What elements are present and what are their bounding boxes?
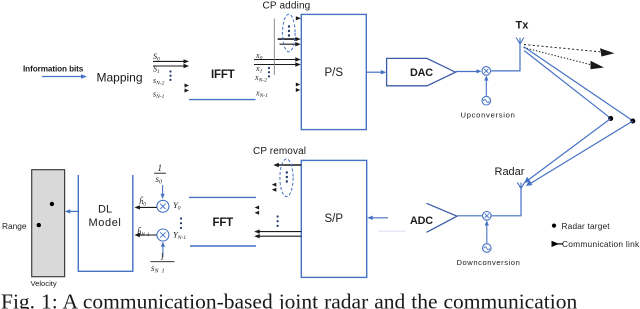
svg-text:IFFT: IFFT (211, 69, 235, 81)
label Y0 (173, 200, 181, 212)
svg-text:Fig. 1: A communication-based: Fig. 1: A communication-based joint rada… (1, 290, 577, 309)
svg-text:DAC: DAC (410, 67, 433, 79)
block IFFT (211, 69, 235, 81)
svg-text:CP adding: CP adding (263, 0, 311, 11)
label SN-2 (153, 76, 165, 87)
label Range (2, 221, 27, 231)
ellipse CP adding dashed (283, 14, 296, 52)
antenna Radar Rx (517, 182, 524, 188)
label Information bits (23, 65, 84, 74)
wire h0 arrow to DL (134, 205, 156, 209)
svg-text:S/P: S/P (325, 213, 344, 225)
legend radar target (552, 221, 610, 231)
label xN-1 (255, 89, 268, 100)
caption figure text (1, 290, 577, 309)
legend communication link (552, 239, 640, 249)
label 1/s0 fraction (154, 163, 166, 186)
block FFT (213, 217, 234, 229)
svg-text:Radar: Radar (495, 166, 525, 178)
wire DL to map arrow (65, 209, 78, 213)
label YN-1 (173, 230, 186, 242)
svg-text:Downconversion: Downconversion (457, 258, 521, 267)
wire S1 arrow (153, 64, 189, 68)
label CP removal (253, 146, 306, 157)
wire Rx antenna to mixer (491, 189, 521, 216)
svg-text:FFT: FFT (213, 217, 234, 229)
wire x1 arrow (254, 62, 301, 66)
svg-text:ADC: ADC (410, 215, 433, 227)
wire 1/s0 down arrow (161, 185, 165, 199)
node dots between x1 and xN-2 (268, 67, 270, 78)
node dots before S/P lines (277, 215, 279, 227)
label Tx (516, 20, 530, 32)
oscillator upconversion (482, 96, 491, 105)
svg-text:Model: Model (89, 217, 122, 229)
svg-text:Upconversion: Upconversion (461, 111, 516, 120)
label Downconversion (457, 258, 521, 267)
block DAC (387, 58, 456, 85)
node dots CP removal (286, 171, 288, 182)
block range-velocity map (32, 170, 65, 277)
label CP adding (263, 0, 311, 11)
wire x0 arrow (254, 57, 301, 61)
wire radar return path 1 (524, 119, 611, 184)
wire radar outgoing path 1 (524, 47, 633, 121)
wire downmixer to ADC (457, 215, 483, 217)
wire small arrows into P/S (296, 83, 301, 93)
label S0 (153, 52, 160, 63)
label x0 (255, 51, 263, 62)
node map dot 1 (50, 202, 54, 206)
wire hN-1 arrow to DL (134, 233, 156, 237)
label h0 (139, 196, 146, 208)
svg-text:Velocity: Velocity (31, 279, 57, 288)
block P/S (301, 14, 366, 129)
label hN-1 (137, 227, 150, 239)
node radar target 1 (608, 116, 613, 121)
wire S/P to FFT line 2 (254, 234, 301, 238)
wire FFT top line (189, 196, 256, 198)
wire small arrows before IFFT (185, 84, 190, 93)
svg-text:Information bits: Information bits (23, 65, 84, 74)
block Mapping (97, 71, 143, 85)
svg-text:P/S: P/S (325, 67, 344, 79)
wire CP top arrowhead (296, 16, 301, 20)
wire small arrows left of ellipse (272, 183, 277, 192)
wire CP vertical line (273, 19, 275, 76)
wire ADC to S/P arrow (367, 216, 388, 220)
block DL Model (78, 175, 133, 271)
label Velocity (31, 279, 57, 288)
svg-text:1: 1 (160, 252, 165, 262)
label SN-1 (153, 90, 165, 101)
node dots CP adding (288, 25, 290, 36)
svg-text:Radar target: Radar target (562, 221, 611, 231)
wire P/S to DAC arrow (366, 70, 386, 74)
wire communication link 1 dashed (524, 45, 615, 57)
block ADC (410, 203, 457, 232)
wire radar return path 2 (526, 121, 633, 186)
wire CP copy arrow 1 (278, 37, 301, 41)
svg-text:DL: DL (98, 204, 112, 216)
wire 1/sN-1 up arrow (161, 242, 165, 258)
block S/P (301, 160, 366, 277)
wire IFFT bottom line (189, 99, 256, 101)
svg-text:Mapping: Mapping (97, 71, 143, 85)
antenna Tx (516, 38, 524, 44)
mixer YN-1 (157, 229, 169, 241)
wire small arrows right of FFT (255, 206, 260, 215)
mixer downconversion (483, 212, 492, 221)
wire faint segment (378, 230, 406, 232)
label 1/sN-1 fraction (151, 252, 175, 275)
svg-text:Tx: Tx (516, 20, 530, 32)
wire CP removal discard arrow (273, 163, 301, 167)
wire FFT bottom line (190, 245, 256, 247)
oscillator downconversion (483, 244, 492, 253)
ellipse CP removal dashed (280, 159, 293, 197)
wire communication link 2 dashed (524, 48, 605, 70)
svg-text:CP removal: CP removal (253, 146, 306, 157)
node dots between S1 and SN-2 (169, 70, 171, 81)
mixer upconversion (482, 67, 491, 76)
svg-text:Communication link: Communication link (562, 239, 640, 249)
wire mixer to Tx antenna (491, 44, 520, 71)
wire info-bits arrow (42, 74, 87, 79)
label Radar (495, 166, 525, 178)
mixer Y0 (157, 200, 169, 212)
wire S0 arrow (153, 59, 189, 63)
label S1 (153, 65, 160, 76)
svg-text:Range: Range (2, 221, 27, 231)
label x1 (255, 64, 263, 75)
label Upconversion (461, 111, 516, 120)
label xN-2 (254, 73, 267, 84)
node dots between mixers (180, 217, 182, 229)
svg-text:1: 1 (158, 163, 163, 173)
wire radar outgoing path 2 (524, 51, 611, 119)
node map dot 2 (37, 223, 41, 227)
wire DAC to mixer arrow (456, 69, 482, 73)
wire oscillator to downmixer arrow (485, 220, 489, 243)
wire CP copy arrow 2 (280, 42, 301, 46)
node radar target 2 (630, 119, 635, 124)
wire S/P to FFT line 1 (254, 229, 301, 233)
wire oscillator to mixer arrow (484, 75, 488, 96)
